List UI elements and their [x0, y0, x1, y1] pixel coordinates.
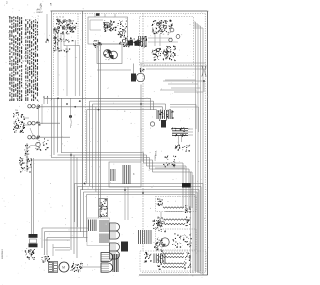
svg-text:M: M	[62, 266, 65, 270]
svg-text:8101P: 8101P	[37, 12, 44, 14]
svg-text:16022113: 16022113	[2, 249, 4, 259]
svg-text:L1 N L2: L1 N L2	[56, 17, 65, 19]
svg-text:BROIL: BROIL	[156, 150, 158, 156]
svg-text:¶: ¶	[50, 3, 52, 7]
svg-text:TH: TH	[15, 110, 18, 112]
